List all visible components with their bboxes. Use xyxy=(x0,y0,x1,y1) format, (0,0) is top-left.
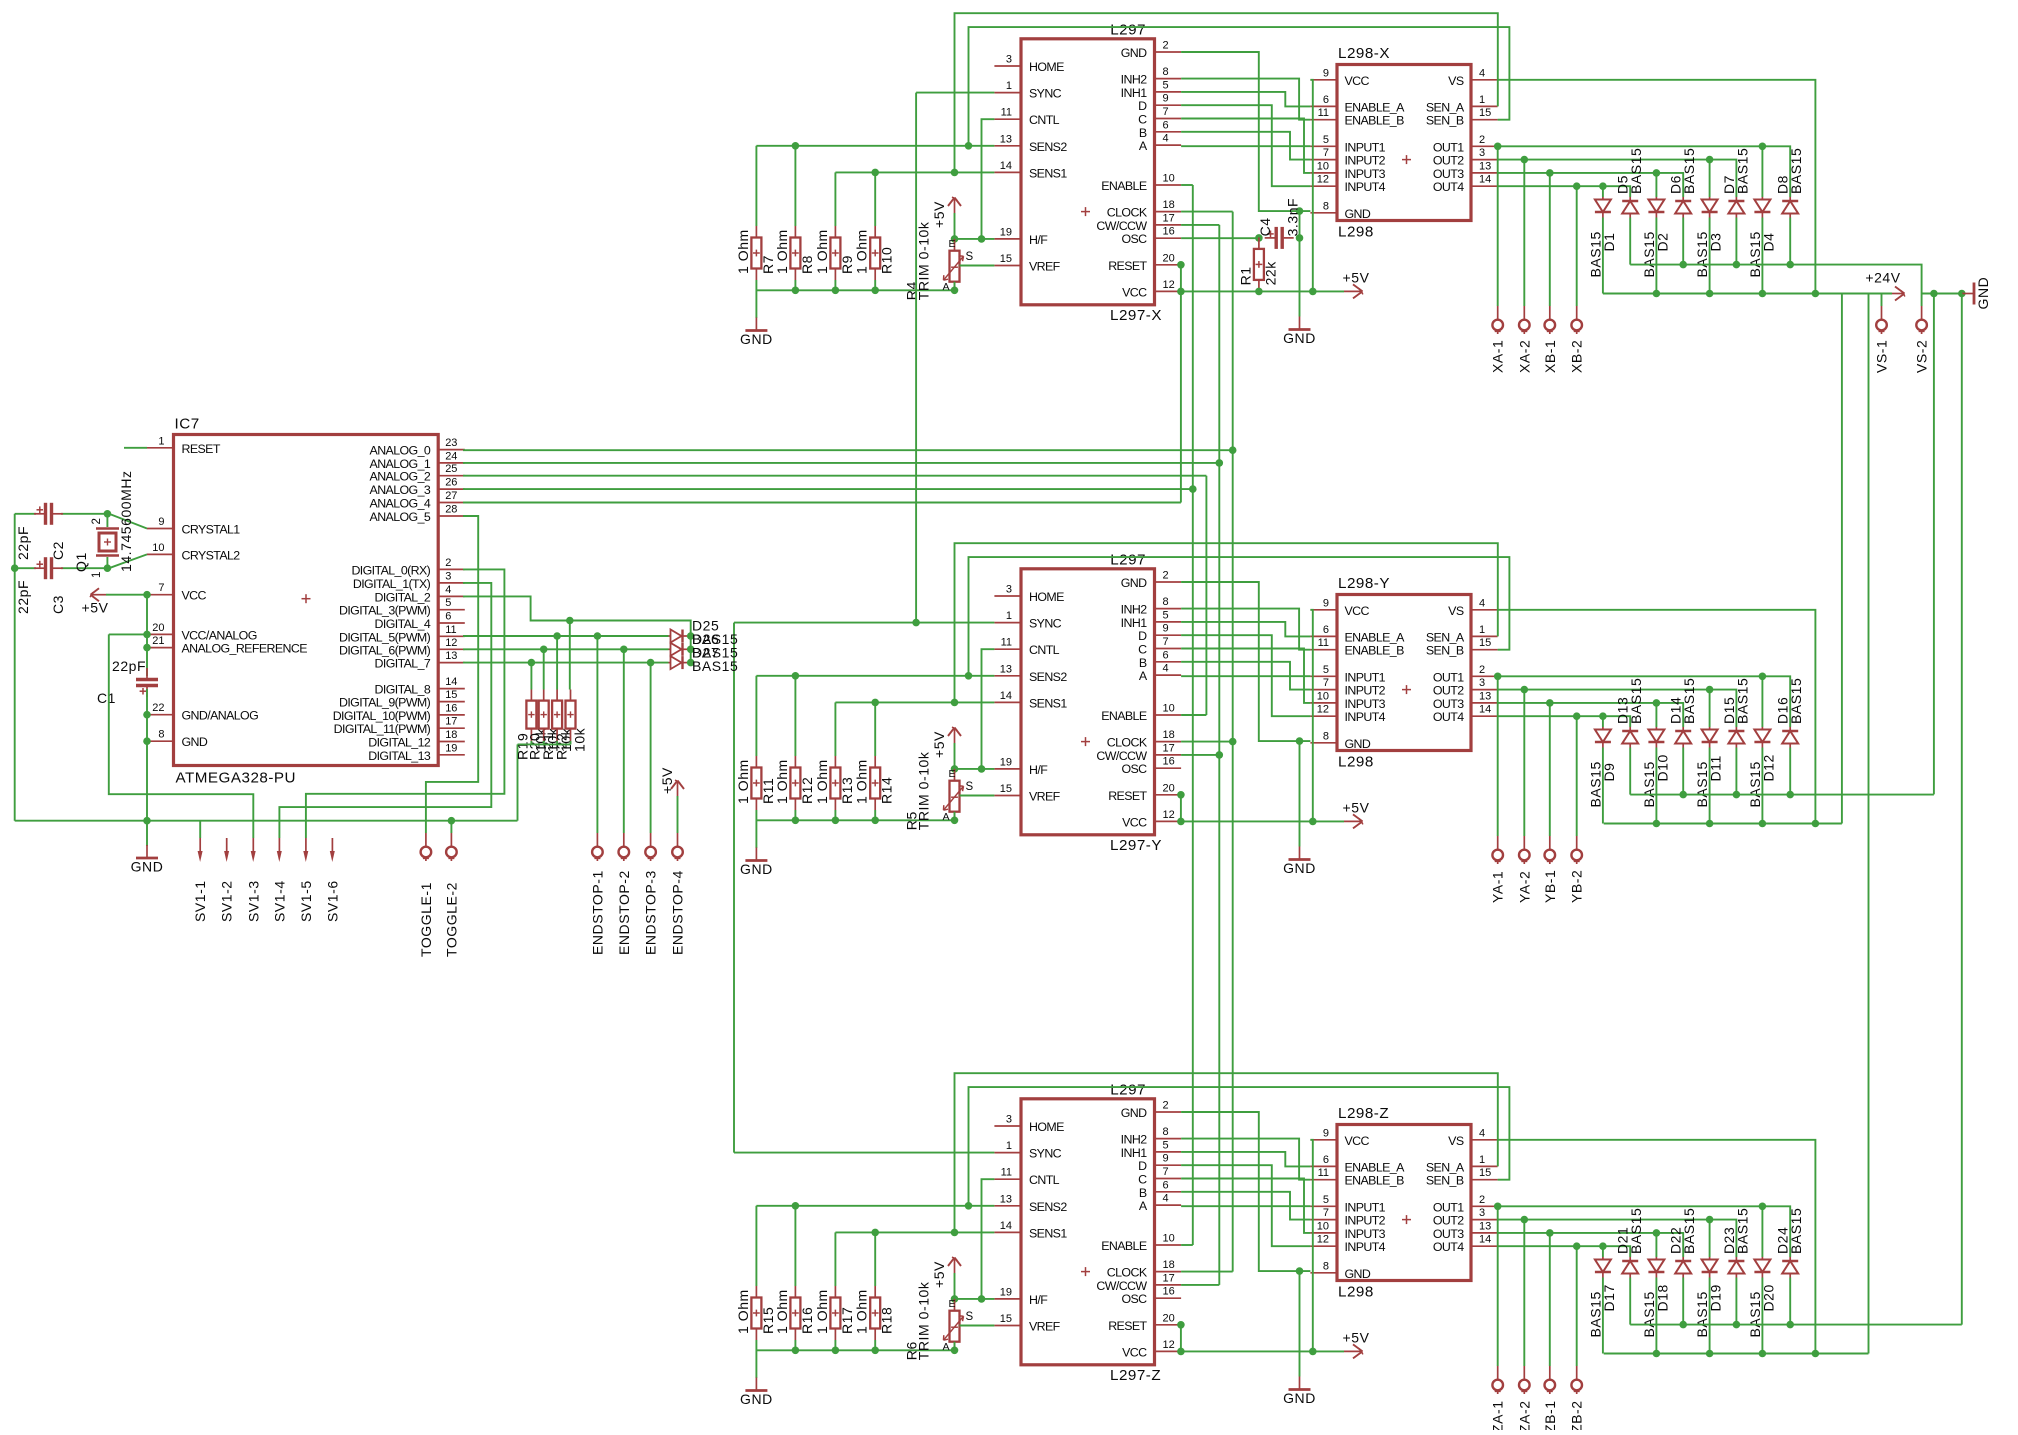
svg-text:OUT4: OUT4 xyxy=(1433,710,1464,724)
wire D to INPUT4 Z xyxy=(1181,1165,1310,1246)
svg-text:SENS1: SENS1 xyxy=(1029,1226,1067,1240)
svg-text:SYNC: SYNC xyxy=(1029,87,1062,101)
svg-text:11: 11 xyxy=(1001,637,1012,649)
svg-text:L297-Z: L297-Z xyxy=(1110,1367,1161,1384)
diode array D25 BAS15 x3 xyxy=(669,618,739,674)
svg-text:27: 27 xyxy=(445,490,457,502)
wire VS-X to +24V rail xyxy=(1498,80,1816,294)
svg-text:INPUT1: INPUT1 xyxy=(1345,140,1386,154)
svg-text:13: 13 xyxy=(1000,133,1012,145)
wire OUT1 Z xyxy=(1498,1206,1791,1257)
svg-text:SENS2: SENS2 xyxy=(1029,140,1067,154)
svg-text:ENABLE_A: ENABLE_A xyxy=(1345,1160,1406,1174)
wire ZB-1 drop xyxy=(1549,1233,1551,1366)
svg-text:BAS15: BAS15 xyxy=(1788,678,1804,724)
diode D23 BAS15 xyxy=(1721,1208,1751,1278)
svg-text:CNTL: CNTL xyxy=(1029,113,1060,127)
svg-text:GND: GND xyxy=(1121,1106,1147,1120)
wire +5V to H/F and trimmer E Z xyxy=(954,1273,956,1299)
svg-text:ZA-2: ZA-2 xyxy=(1516,1400,1532,1430)
svg-text:13: 13 xyxy=(1479,160,1491,172)
svg-text:C3: C3 xyxy=(50,595,66,614)
diode D21 BAS15 xyxy=(1615,1208,1645,1278)
wire SV1-1 drop xyxy=(199,821,201,838)
wire sense resistor bottom bus Z xyxy=(756,1349,954,1351)
wire XB-1 drop xyxy=(1549,173,1551,306)
svg-text:1 Ohm: 1 Ohm xyxy=(854,1289,870,1334)
wire SENS1-Z to SEN_A-Z xyxy=(955,1073,1498,1232)
resistor R13 1 Ohm xyxy=(814,756,855,810)
svg-text:L297: L297 xyxy=(1110,1081,1146,1098)
svg-text:28: 28 xyxy=(445,504,457,516)
wire DIGITAL_7 line xyxy=(463,662,669,664)
wire ANALOG_1 line xyxy=(463,462,1219,464)
svg-text:22pF: 22pF xyxy=(15,580,31,614)
svg-text:B: B xyxy=(1139,126,1147,140)
svg-text:L297-X: L297-X xyxy=(1110,307,1162,324)
svg-text:3: 3 xyxy=(445,570,451,582)
svg-text:GND: GND xyxy=(182,735,208,749)
wire D19 anode riser xyxy=(1709,1220,1711,1257)
svg-text:9: 9 xyxy=(1163,93,1169,105)
svg-text:14: 14 xyxy=(1479,1234,1491,1246)
svg-text:2: 2 xyxy=(1479,664,1485,676)
capacitor C3 22pF xyxy=(15,557,66,614)
svg-text:21: 21 xyxy=(152,635,164,647)
svg-text:CW/CCW: CW/CCW xyxy=(1096,749,1147,763)
svg-text:6: 6 xyxy=(1323,1154,1329,1166)
svg-text:15: 15 xyxy=(1479,1167,1491,1179)
wire D17 cathode to +24V bus xyxy=(1602,1278,1604,1354)
wire CNTL tied to +5V X xyxy=(982,119,995,239)
wire CNTL tied to +5V Z xyxy=(982,1179,995,1299)
svg-text:XA-1: XA-1 xyxy=(1490,340,1506,373)
wire CW/CCW-Z stub to cw bus xyxy=(1181,1284,1219,1286)
connector ENDSTOP-1 xyxy=(596,833,598,846)
resistor R8 1 Ohm xyxy=(774,226,815,280)
wire +24V feed riser to Z xyxy=(1868,294,1870,1354)
svg-text:L298: L298 xyxy=(1338,224,1374,241)
wire D20 anode riser xyxy=(1761,1206,1763,1257)
wire D10 anode riser xyxy=(1655,703,1657,727)
svg-text:VCC: VCC xyxy=(182,589,207,603)
wire ANALOG_4 line xyxy=(463,502,1181,504)
svg-text:13: 13 xyxy=(445,650,457,662)
diode D19 BAS15 xyxy=(1694,1257,1724,1338)
wire YB-1 drop xyxy=(1549,703,1551,836)
svg-text:4: 4 xyxy=(1163,663,1169,675)
wire D1 cathode to +24V bus xyxy=(1602,218,1604,294)
svg-text:2: 2 xyxy=(1163,570,1169,582)
wire DIGITAL_2 to diode cathodes xyxy=(463,596,691,663)
diode D15 BAS15 xyxy=(1721,678,1751,748)
svg-text:8: 8 xyxy=(1323,200,1329,212)
wire YB-2 drop xyxy=(1576,716,1578,836)
wire VCC +5V line Z xyxy=(1181,1350,1344,1352)
svg-text:SENS2: SENS2 xyxy=(1029,670,1067,684)
svg-text:L297-Y: L297-Y xyxy=(1110,837,1162,854)
diode D5 BAS15 xyxy=(1615,148,1645,218)
svg-text:E: E xyxy=(949,238,956,250)
svg-text:15: 15 xyxy=(1000,783,1012,795)
svg-text:1 Ohm: 1 Ohm xyxy=(774,229,790,274)
wire DIGITAL_5 line xyxy=(463,635,669,637)
svg-text:VCC: VCC xyxy=(1122,285,1147,299)
connector TOGGLE-1 xyxy=(425,833,427,846)
wire A to INPUT1 X xyxy=(1181,145,1310,147)
diode D1 BAS15 xyxy=(1587,197,1617,278)
diode D10 BAS15 xyxy=(1641,727,1671,808)
svg-text:7: 7 xyxy=(1163,106,1169,118)
svg-text:16: 16 xyxy=(1163,756,1175,768)
svg-text:10: 10 xyxy=(1317,690,1329,702)
svg-text:17: 17 xyxy=(445,716,457,728)
wire trimmer A to bus X xyxy=(954,282,956,291)
svg-text:INH2: INH2 xyxy=(1121,603,1148,617)
wire INH1 to ENABLE_A X xyxy=(1181,92,1310,107)
resistor R19 10k xyxy=(514,690,548,761)
wire OUT3 Z xyxy=(1498,1233,1684,1257)
svg-text:1 Ohm: 1 Ohm xyxy=(774,1289,790,1334)
svg-text:11: 11 xyxy=(1318,107,1329,119)
wire diode anode bus Z to GND riser xyxy=(1630,1324,1962,1326)
svg-text:1: 1 xyxy=(1479,94,1485,106)
svg-text:ENABLE: ENABLE xyxy=(1101,179,1147,193)
wire sense resistor bottom bus Y xyxy=(756,819,954,821)
wire OUT3 X xyxy=(1498,173,1684,197)
wire D12 anode riser xyxy=(1761,676,1763,727)
wire VCC to +5V xyxy=(106,594,147,596)
svg-text:C2: C2 xyxy=(50,541,66,560)
resistor R11 1 Ohm xyxy=(735,756,776,810)
svg-text:SENS1: SENS1 xyxy=(1029,166,1067,180)
svg-text:BAS15: BAS15 xyxy=(1628,678,1644,724)
connector pin SV1-3 xyxy=(252,838,254,854)
svg-text:ENDSTOP-4: ENDSTOP-4 xyxy=(670,870,686,955)
wire B to INPUT2 Z xyxy=(1181,1192,1310,1220)
svg-text:CNTL: CNTL xyxy=(1029,643,1060,657)
svg-text:BAS15: BAS15 xyxy=(1734,1208,1750,1254)
capacitor C2 22pF xyxy=(15,503,66,560)
svg-text:H/F: H/F xyxy=(1029,233,1048,247)
svg-text:ENDSTOP-1: ENDSTOP-1 xyxy=(589,870,605,955)
svg-text:OUT3: OUT3 xyxy=(1433,167,1464,181)
resistor R17 1 Ohm xyxy=(814,1286,855,1340)
svg-text:2: 2 xyxy=(1479,1194,1485,1206)
svg-text:A: A xyxy=(943,1341,950,1353)
diode D17 BAS15 xyxy=(1587,1257,1617,1338)
wire OSC-X line xyxy=(1181,237,1259,239)
svg-text:R12: R12 xyxy=(799,777,815,804)
svg-text:26: 26 xyxy=(445,477,457,489)
svg-text:RESET: RESET xyxy=(1108,1319,1147,1333)
wire OUT4 Y xyxy=(1498,716,1631,727)
svg-text:DIGITAL_11(PWM): DIGITAL_11(PWM) xyxy=(334,722,431,736)
svg-text:BAS15: BAS15 xyxy=(1628,1208,1644,1254)
wire SENS2 line Y xyxy=(755,676,757,756)
svg-text:25: 25 xyxy=(445,463,457,475)
wire VS-Z to +24V bus xyxy=(1498,1140,1816,1354)
svg-text:10k: 10k xyxy=(572,727,588,752)
svg-text:OUT3: OUT3 xyxy=(1433,697,1464,711)
power +5V arrow for ENDSTOP-4 xyxy=(677,782,679,796)
svg-text:6: 6 xyxy=(1163,649,1169,661)
svg-text:VS-2: VS-2 xyxy=(1914,340,1930,373)
wire +5V to H/F and trimmer E X xyxy=(954,213,956,239)
svg-text:VS: VS xyxy=(1448,604,1464,618)
wire R22 riser xyxy=(569,621,571,690)
svg-text:DIGITAL_1(TX): DIGITAL_1(TX) xyxy=(353,577,431,591)
resistor R16 1 Ohm xyxy=(774,1286,815,1340)
IC L297-Z stepper controller xyxy=(994,1081,1181,1384)
svg-text:INH2: INH2 xyxy=(1121,73,1148,87)
svg-text:14: 14 xyxy=(1000,160,1012,172)
wire AVCC to SV1-3 xyxy=(109,634,254,838)
power +5V arrow Y xyxy=(1344,820,1361,822)
svg-text:2: 2 xyxy=(91,518,103,524)
svg-text:VS: VS xyxy=(1448,1134,1464,1148)
wire CW/CCW-Y stub to cw bus xyxy=(1181,754,1219,756)
wire D3 anode riser xyxy=(1709,160,1711,197)
svg-text:XA-2: XA-2 xyxy=(1516,340,1532,373)
wire B to INPUT2 X xyxy=(1181,132,1310,160)
svg-text:BAS15: BAS15 xyxy=(1734,148,1750,194)
svg-text:R9: R9 xyxy=(839,255,855,274)
svg-text:ATMEGA328-PU: ATMEGA328-PU xyxy=(176,770,297,787)
wire trimmer wiper to VREF X xyxy=(960,265,995,267)
wire C to INPUT3 X xyxy=(1181,119,1310,173)
wire OUT4 Z xyxy=(1498,1246,1631,1257)
resistor R21 10k xyxy=(540,690,574,761)
power +5V arrow at VCC xyxy=(92,594,106,596)
resistor R20 10k xyxy=(527,690,561,761)
svg-text:17: 17 xyxy=(1163,1272,1175,1284)
connector VS-1 xyxy=(1881,306,1883,319)
connector pin SV1-6 xyxy=(331,838,333,854)
junction dots resistor bus Z xyxy=(792,1347,800,1355)
wire XB-2 drop xyxy=(1576,186,1578,306)
svg-text:1: 1 xyxy=(1006,1140,1012,1152)
wire 10k bus corner down xyxy=(517,744,519,820)
svg-text:INH1: INH1 xyxy=(1121,616,1148,630)
diode D18 BAS15 xyxy=(1641,1257,1671,1338)
svg-text:7: 7 xyxy=(1163,636,1169,648)
wire YA-1 drop xyxy=(1497,676,1499,836)
svg-text:12: 12 xyxy=(1163,279,1175,291)
svg-text:HOME: HOME xyxy=(1029,590,1064,604)
svg-text:9: 9 xyxy=(1323,597,1329,609)
svg-text:SV1-3: SV1-3 xyxy=(245,880,261,922)
wire SENS2-X to SEN_B-X xyxy=(969,27,1510,146)
svg-text:C: C xyxy=(1138,1173,1147,1187)
connector pin SV1-5 xyxy=(305,838,307,854)
wire ENDSTOP-3 drop xyxy=(650,663,652,833)
diode D2 BAS15 xyxy=(1641,197,1671,278)
svg-text:13: 13 xyxy=(1479,690,1491,702)
svg-text:ANALOG_4: ANALOG_4 xyxy=(370,497,431,511)
wire SENS1 line Y xyxy=(834,702,836,756)
svg-text:ANALOG_5: ANALOG_5 xyxy=(370,510,431,524)
svg-text:20: 20 xyxy=(152,622,164,634)
svg-text:+24V: +24V xyxy=(1865,270,1900,286)
wire ZA-1 drop xyxy=(1497,1206,1499,1366)
svg-text:3: 3 xyxy=(1479,147,1485,159)
svg-text:10: 10 xyxy=(1163,703,1175,715)
svg-text:15: 15 xyxy=(1479,107,1491,119)
trimmer potentiometer R4 TRIM 0-10k xyxy=(904,221,974,300)
svg-text:TOGGLE-2: TOGGLE-2 xyxy=(443,882,459,957)
wire C to INPUT3 Y xyxy=(1181,649,1310,703)
svg-text:3: 3 xyxy=(1006,54,1012,66)
wire D14 anode to sense bus xyxy=(1682,748,1684,795)
power +24V arrow xyxy=(1892,293,1903,295)
svg-text:20: 20 xyxy=(1163,782,1175,794)
svg-text:ENDSTOP-2: ENDSTOP-2 xyxy=(616,870,632,955)
svg-text:C: C xyxy=(1138,643,1147,657)
wire R20 riser xyxy=(543,649,545,689)
wire VCC +5V line X xyxy=(1181,290,1344,292)
svg-text:14: 14 xyxy=(1000,1220,1012,1232)
wire trimmer wiper to VREF Y xyxy=(960,795,995,797)
svg-text:4: 4 xyxy=(1479,67,1485,79)
wire OUT1 X xyxy=(1498,146,1791,197)
svg-text:24: 24 xyxy=(445,450,457,462)
svg-text:+5V: +5V xyxy=(659,767,675,794)
connector ENDSTOP-4 xyxy=(677,833,679,846)
wire RESET tied to VCC X xyxy=(1180,265,1182,292)
svg-text:GND: GND xyxy=(1345,737,1371,751)
ground GND below R X xyxy=(755,318,757,331)
svg-text:L298-Z: L298-Z xyxy=(1338,1105,1389,1122)
junction dots resistor bus X xyxy=(792,287,800,295)
wire SENS1-X to SEN_A-X xyxy=(955,13,1498,172)
wire OUT4 X xyxy=(1498,186,1631,197)
svg-text:8: 8 xyxy=(1163,1126,1169,1138)
svg-text:INPUT4: INPUT4 xyxy=(1345,1240,1386,1254)
IC L297-X stepper controller xyxy=(994,21,1181,324)
resistor R18 1 Ohm xyxy=(854,1286,895,1340)
diode D11 BAS15 xyxy=(1694,727,1724,808)
svg-text:13: 13 xyxy=(1000,663,1012,675)
svg-text:18: 18 xyxy=(445,729,457,741)
wire D11 anode riser xyxy=(1709,690,1711,727)
wire D2 anode riser xyxy=(1655,173,1657,197)
svg-text:INH1: INH1 xyxy=(1121,86,1148,100)
wire R bottom to ground Y xyxy=(755,810,757,848)
wire VS-Y to +24V bus xyxy=(1498,610,1816,824)
svg-text:1 Ohm: 1 Ohm xyxy=(854,229,870,274)
svg-text:R13: R13 xyxy=(839,777,855,804)
svg-text:S: S xyxy=(966,1311,974,1323)
svg-text:+5V: +5V xyxy=(931,731,947,758)
svg-text:5: 5 xyxy=(1323,664,1329,676)
resistor R12 1 Ohm xyxy=(774,756,815,810)
wire ENABLE-X to enable bus xyxy=(1181,184,1193,186)
wire D4 cathode to +24V bus xyxy=(1761,218,1763,294)
connector XA-2 xyxy=(1523,306,1525,319)
svg-text:E: E xyxy=(949,1298,956,1310)
diode D8 BAS15 xyxy=(1775,148,1805,218)
wire ANALOG_0 line xyxy=(463,449,1233,451)
svg-text:R16: R16 xyxy=(799,1307,815,1334)
svg-text:7: 7 xyxy=(1163,1166,1169,1178)
wire C3 net to crystal2 xyxy=(15,567,36,569)
svg-text:22pF: 22pF xyxy=(15,526,31,560)
wire D8 anode to sense bus xyxy=(1789,218,1791,265)
IC L297-Y stepper controller xyxy=(994,551,1181,854)
wire D1 anode riser xyxy=(1602,186,1604,197)
svg-text:B: B xyxy=(1139,1186,1147,1200)
svg-text:L297: L297 xyxy=(1110,21,1146,38)
microcontroller IC7 ATMEGA328-PU xyxy=(147,416,465,787)
svg-text:YA-2: YA-2 xyxy=(1516,871,1532,903)
svg-text:GND: GND xyxy=(1283,860,1316,876)
svg-text:INH1: INH1 xyxy=(1121,1146,1148,1160)
svg-text:ANALOG_2: ANALOG_2 xyxy=(370,470,431,484)
svg-text:B: B xyxy=(1139,656,1147,670)
svg-text:16: 16 xyxy=(1163,1286,1175,1298)
power +5V arrow above trimmer X xyxy=(954,199,956,213)
wire OUT3 Y xyxy=(1498,703,1684,727)
wire R bottom to ground Z xyxy=(755,1340,757,1378)
svg-text:14.745600MHz: 14.745600MHz xyxy=(118,470,134,572)
svg-text:VREF: VREF xyxy=(1029,790,1061,804)
wire SYNC riser Y to Z xyxy=(733,623,735,1153)
svg-text:BAS15: BAS15 xyxy=(1788,1208,1804,1254)
wire GND drop to ground symbol X xyxy=(1299,211,1301,316)
connector YB-2 xyxy=(1576,836,1578,849)
svg-text:R1: R1 xyxy=(1237,266,1253,285)
diode D22 BAS15 xyxy=(1668,1208,1698,1278)
wire D6 anode to sense bus xyxy=(1682,218,1684,265)
svg-text:ZB-2: ZB-2 xyxy=(1569,1400,1585,1430)
svg-text:1 Ohm: 1 Ohm xyxy=(854,759,870,804)
svg-text:DIGITAL_4: DIGITAL_4 xyxy=(375,617,431,631)
svg-text:INPUT4: INPUT4 xyxy=(1345,710,1386,724)
wire B to INPUT2 Y xyxy=(1181,662,1310,690)
diode D12 BAS15 xyxy=(1747,727,1777,808)
svg-text:BAS15: BAS15 xyxy=(1681,678,1697,724)
resistor R15 1 Ohm xyxy=(735,1286,776,1340)
diode D13 BAS15 xyxy=(1615,678,1645,748)
svg-text:TRIM 0-10k: TRIM 0-10k xyxy=(916,1281,932,1360)
svg-text:10: 10 xyxy=(1163,1233,1175,1245)
svg-text:INH2: INH2 xyxy=(1121,1133,1148,1147)
svg-text:ENDSTOP-3: ENDSTOP-3 xyxy=(643,870,659,955)
diode D9 BAS15 xyxy=(1587,727,1617,808)
svg-text:6: 6 xyxy=(1163,1179,1169,1191)
svg-text:1: 1 xyxy=(1006,80,1012,92)
svg-text:ZB-1: ZB-1 xyxy=(1542,1400,1558,1430)
svg-text:R8: R8 xyxy=(799,255,815,274)
wire INH2 to ENABLE_B Y xyxy=(1181,609,1310,650)
wire R21 riser xyxy=(556,636,558,690)
wire GND drop to ground symbol Z xyxy=(1299,1271,1301,1376)
svg-text:8: 8 xyxy=(1323,730,1329,742)
svg-text:3: 3 xyxy=(1006,584,1012,596)
svg-text:SEN_B: SEN_B xyxy=(1426,114,1464,128)
wire A to INPUT1 Z xyxy=(1181,1205,1310,1207)
wire H/F line Z xyxy=(955,1298,995,1300)
svg-text:19: 19 xyxy=(1000,226,1012,238)
wire D20 cathode to +24V bus xyxy=(1761,1278,1763,1354)
wire D22 anode to sense bus xyxy=(1682,1278,1684,1325)
svg-text:1: 1 xyxy=(1006,610,1012,622)
svg-text:SEN_A: SEN_A xyxy=(1426,100,1465,114)
wire +24V bus Y xyxy=(1604,823,1842,825)
wire OUT2 Z xyxy=(1498,1220,1737,1257)
svg-text:1 Ohm: 1 Ohm xyxy=(814,759,830,804)
